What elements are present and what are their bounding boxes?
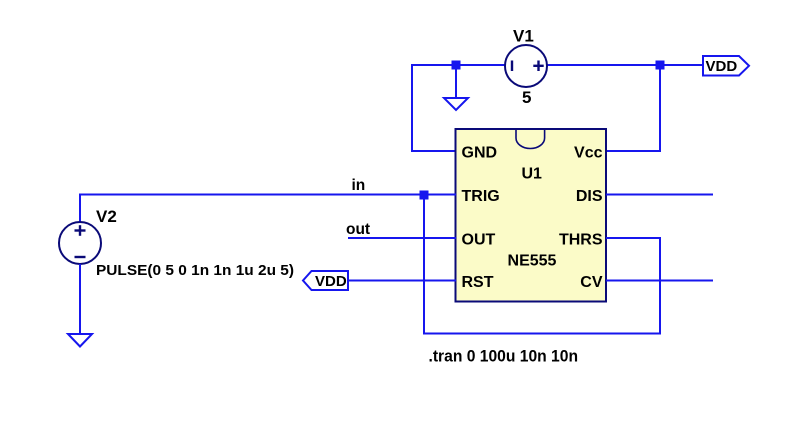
svg-text:PULSE(0 5 0 1n 1n 1u 2u 5): PULSE(0 5 0 1n 1n 1u 2u 5) [96, 262, 294, 279]
pin DIS label [576, 188, 603, 205]
net flag VDD at RST [303, 271, 348, 290]
wire CV stub to the right [606, 280, 713, 282]
svg-text:V2: V2 [96, 207, 117, 226]
directive .tran text [429, 347, 579, 365]
ground symbol under V1 [444, 98, 468, 110]
pin OUT label [462, 231, 496, 248]
junction on top rail at Vcc drop [656, 61, 665, 70]
wire THRS horizontal to box [606, 237, 661, 239]
junction at TRIG [420, 191, 429, 200]
svg-text:CV: CV [580, 274, 603, 291]
pin RST label [462, 274, 494, 291]
wire top rail from left drop to VDD flag [412, 64, 703, 66]
wire stub from junction down to ground under V1 [455, 65, 457, 98]
value PULSE of V2 [96, 262, 294, 279]
label NE555 [508, 253, 557, 270]
wire Vcc drop from top rail junction down to Vcc pin [606, 65, 661, 151]
node in label [352, 177, 366, 194]
voltage source V2 circle [59, 222, 101, 264]
wire RST to VDD flag [348, 280, 456, 282]
value 5 of V1 [522, 88, 531, 107]
svg-text:OUT: OUT [462, 231, 496, 248]
svg-text:out: out [346, 221, 370, 238]
svg-text:in: in [352, 177, 366, 194]
svg-text:Vcc: Vcc [574, 144, 603, 161]
svg-text:VDD: VDD [706, 58, 738, 75]
label U1 [521, 165, 542, 182]
svg-text:DIS: DIS [576, 188, 603, 205]
wire THRS vertical riser [659, 238, 661, 334]
label V1 [513, 27, 534, 46]
wire left drop from top rail to GND pin [411, 64, 456, 151]
node out label [346, 221, 370, 238]
pin Vcc label [574, 144, 603, 161]
wire V2 bottom to ground [79, 264, 81, 334]
junction on top rail at V1 left / ground [452, 61, 461, 70]
wire out net to OUT pin [348, 237, 456, 239]
svg-text:5: 5 [522, 88, 531, 107]
wire TRIG vertical feedback drop [423, 195, 425, 334]
wire V2 top to in rail [79, 194, 81, 223]
svg-text:U1: U1 [521, 165, 542, 182]
svg-text:V1: V1 [513, 27, 534, 46]
pin TRIG label [462, 188, 500, 205]
svg-text:TRIG: TRIG [462, 188, 500, 205]
net flag VDD top right [703, 56, 749, 76]
label V2 [96, 207, 117, 226]
op-amp-style component U1 NE555 body [456, 129, 607, 302]
wire DIS stub to the right [606, 194, 713, 196]
svg-text:NE555: NE555 [508, 253, 557, 270]
pin CV label [580, 274, 603, 291]
svg-text:THRS: THRS [559, 231, 603, 248]
pin GND label [462, 144, 498, 161]
svg-text:GND: GND [462, 144, 498, 161]
wire bottom feedback rail [423, 333, 661, 335]
voltage source V1 circle [505, 45, 547, 87]
svg-text:VDD: VDD [315, 273, 347, 290]
wire in net from V2 to TRIG [79, 194, 456, 196]
svg-text:.tran 0 100u 10n 10n: .tran 0 100u 10n 10n [429, 347, 579, 365]
pin THRS label [559, 231, 603, 248]
svg-text:RST: RST [462, 274, 494, 291]
ground symbol under V2 [68, 334, 92, 347]
